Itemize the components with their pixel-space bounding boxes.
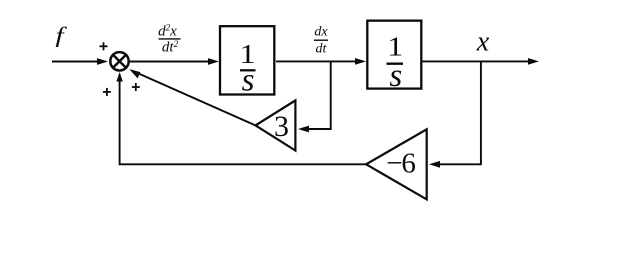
gain block 3 (triangle) (256, 100, 296, 150)
svg-text:3: 3 (274, 110, 289, 143)
integrator block U2: 1/s (367, 21, 421, 94)
node label dx/dt (314, 25, 328, 57)
wire: gain 3 to summing junction (diagonal) (129, 69, 255, 125)
svg-text:dx: dx (314, 25, 328, 40)
plus sign (gain 3 feedback input) (132, 83, 140, 91)
node label d2x/dt2 (158, 23, 180, 56)
svg-text:dt: dt (316, 41, 328, 56)
wire: x tap down into gain -6 (429, 61, 481, 167)
gain block -6 (triangle) (366, 129, 427, 199)
svg-text:s: s (242, 63, 255, 99)
wire: summing junction to integrator 1 (130, 58, 219, 65)
wire: dx/dt tap down into gain 3 (298, 61, 331, 132)
wire: gain -6 back to summing junction (116, 72, 366, 164)
svg-text:x: x (476, 26, 490, 57)
wire: output x (422, 58, 539, 65)
integrator block U1: 1/s (220, 26, 274, 98)
svg-text:s: s (389, 58, 402, 94)
summing junction (circle with X) (110, 52, 128, 70)
svg-text:1: 1 (387, 31, 403, 61)
wire: input f into summing junction (52, 58, 108, 65)
plus sign (f input) (100, 42, 108, 50)
svg-text:−6: −6 (386, 147, 415, 179)
wire: integrator 1 to integrator 2 (276, 58, 366, 65)
plus sign (gain -6 feedback input) (103, 88, 111, 96)
